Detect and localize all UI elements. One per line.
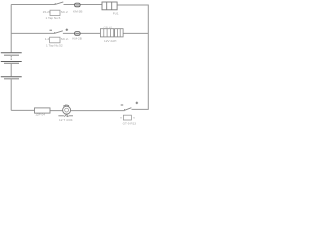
svg-text:KM-2B: KM-2B bbox=[72, 36, 81, 40]
svg-text:SC.2: SC.2 bbox=[61, 10, 68, 14]
svg-text:12V 2AH: 12V 2AH bbox=[104, 39, 116, 43]
svg-text:SC.2-: SC.2- bbox=[61, 37, 69, 41]
svg-text:1 Tap No.5: 1 Tap No.5 bbox=[46, 16, 61, 20]
svg-text:GT-9 R13: GT-9 R13 bbox=[123, 122, 137, 126]
svg-text:n: n bbox=[120, 115, 122, 119]
svg-text:12 T 4 R4: 12 T 4 R4 bbox=[59, 118, 73, 122]
svg-text:GB 41: GB 41 bbox=[104, 25, 113, 29]
svg-text:KM-3B: KM-3B bbox=[73, 10, 82, 14]
svg-text:FU1: FU1 bbox=[113, 12, 119, 16]
svg-text:1-2: 1-2 bbox=[45, 37, 50, 41]
svg-text:15-29: 15-29 bbox=[43, 10, 51, 14]
svg-text:1 Tap No.52: 1 Tap No.52 bbox=[46, 43, 63, 47]
svg-text:s: s bbox=[133, 115, 135, 119]
svg-text:12P 04: 12P 04 bbox=[35, 112, 45, 116]
